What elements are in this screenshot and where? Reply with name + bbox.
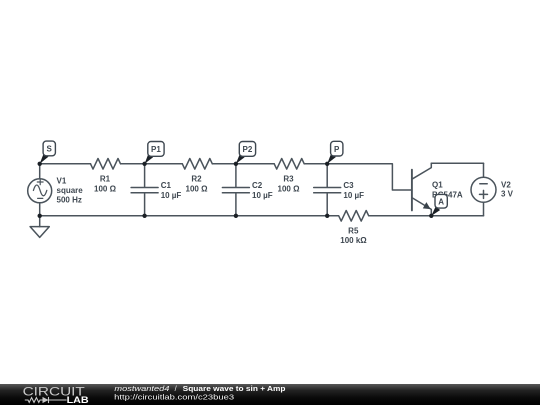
svg-text:Q1: Q1 bbox=[432, 181, 443, 190]
logo squiggle resistor+diode bbox=[25, 397, 67, 403]
svg-text:3 V: 3 V bbox=[501, 190, 514, 199]
resistor R3 bbox=[274, 159, 304, 170]
transistor Q1 bbox=[411, 170, 413, 211]
svg-text:S: S bbox=[47, 145, 53, 154]
svg-text:100 Ω: 100 Ω bbox=[278, 185, 301, 194]
voltage source V1 bbox=[39, 164, 41, 179]
svg-text:100 Ω: 100 Ω bbox=[186, 185, 209, 194]
ground bbox=[39, 216, 41, 227]
footer bar bbox=[0, 384, 540, 405]
wire P2 to R3 bbox=[236, 163, 274, 165]
wire bottom rail right bbox=[431, 215, 483, 217]
svg-text:C1: C1 bbox=[161, 181, 172, 190]
wire collector to V2 bbox=[431, 162, 483, 164]
node A bbox=[431, 194, 447, 216]
capacitor C1 bbox=[131, 164, 158, 216]
svg-text:10 µF: 10 µF bbox=[343, 191, 364, 200]
capacitor C2 bbox=[222, 164, 249, 216]
svg-text:500 Hz: 500 Hz bbox=[57, 196, 82, 205]
svg-text:10 µF: 10 µF bbox=[252, 191, 273, 200]
transistor emitter arrowhead bbox=[423, 202, 431, 209]
svg-text:R1: R1 bbox=[100, 175, 111, 184]
wire R3 to P bbox=[305, 163, 327, 165]
svg-text:C2: C2 bbox=[252, 181, 263, 190]
svg-text:C3: C3 bbox=[343, 181, 354, 190]
resistor R2 bbox=[182, 159, 212, 170]
svg-text:R2: R2 bbox=[191, 175, 202, 184]
capacitor C3 bbox=[314, 164, 341, 216]
wire P to transistor base bbox=[327, 164, 412, 190]
resistor R5 bbox=[327, 211, 431, 222]
wire R1 to P1 bbox=[121, 163, 145, 165]
svg-text:A: A bbox=[438, 198, 444, 207]
svg-text:V1: V1 bbox=[57, 176, 67, 185]
node S bbox=[40, 141, 56, 164]
svg-text:P1: P1 bbox=[151, 145, 161, 154]
node P bbox=[327, 141, 343, 164]
node P2 bbox=[236, 142, 256, 164]
svg-text:square: square bbox=[57, 186, 84, 195]
wire bottom rail left bbox=[40, 215, 328, 217]
node P1 bbox=[145, 142, 165, 164]
svg-text:P2: P2 bbox=[243, 145, 253, 154]
wire top rail S to R1 bbox=[40, 163, 91, 165]
svg-text:100 Ω: 100 Ω bbox=[94, 184, 117, 193]
svg-text:V2: V2 bbox=[501, 180, 511, 189]
svg-text:R3: R3 bbox=[283, 175, 294, 184]
resistor R1 bbox=[91, 159, 121, 170]
wire P1 to R2 bbox=[145, 163, 183, 165]
voltage source V2 bbox=[483, 163, 485, 177]
junction dots bbox=[38, 162, 434, 218]
svg-text:http://circuitlab.com/c23bue3: http://circuitlab.com/c23bue3 bbox=[114, 393, 234, 402]
wire R2 to P2 bbox=[213, 163, 236, 165]
svg-text:10 µF: 10 µF bbox=[161, 191, 182, 200]
svg-text:R5: R5 bbox=[348, 226, 359, 235]
component labels bbox=[57, 175, 514, 246]
svg-text:P: P bbox=[334, 145, 340, 154]
svg-text:100 kΩ: 100 kΩ bbox=[340, 236, 367, 245]
svg-text:LAB: LAB bbox=[67, 395, 89, 405]
